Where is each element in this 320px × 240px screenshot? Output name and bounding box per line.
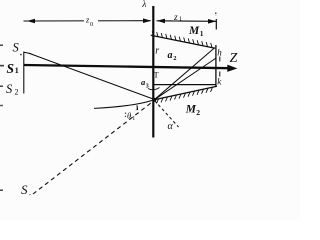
svg-text:2: 2 [15,88,19,97]
svg-text:1: 1 [200,29,204,38]
ray into apex from lower left [94,100,154,109]
hatching M2 [157,87,213,103]
tick at S [24,52,31,53]
axis Z (thick horizontal) [24,65,229,68]
svg-text:1: 1 [179,16,182,23]
arrowhead z1 right [208,19,216,24]
svg-text:h: h [217,48,222,58]
ray O to M1 end [154,49,214,100]
svg-text:M: M [185,104,197,116]
screen plate vertical line [215,45,217,86]
svg-text:S: S [13,40,20,54]
dimension line z1 [157,20,217,23]
svg-text:α: α [168,121,174,132]
ray from S to apex O [29,53,154,99]
axis X (vertical) [152,6,154,138]
dashed bisector alpha [155,101,179,128]
svg-text:λ: λ [141,0,146,10]
direction tick on ray [136,105,139,110]
dashed ray S' to apex [33,101,154,195]
horizontal ray at y=84.6 [153,84,216,86]
mirror M2 [154,86,217,100]
apex node O [152,98,156,102]
svg-text:Z: Z [230,51,238,66]
arrowhead z1 left [157,19,165,24]
dimension line z0 [24,20,151,22]
svg-text:a: a [168,50,173,61]
svg-text:1: 1 [132,116,135,122]
angle arc a3 [148,88,160,90]
svg-text:2: 2 [173,55,176,62]
svg-text:r: r [155,46,159,57]
ray O to screen upper [154,58,216,100]
margin artifact marks [0,45,3,47]
svg-text:2: 2 [196,108,200,117]
source bracket vertical line [23,52,25,94]
label z1 [173,12,184,21]
arrowhead z0 right [143,18,151,23]
svg-text:T: T [154,70,160,80]
svg-text:S: S [21,182,28,197]
svg-text:M: M [188,25,200,37]
mirror M1 [151,35,215,48]
svg-text:.: . [29,188,31,197]
label theta1 [125,113,126,114]
arrowhead Z [227,65,237,72]
hatching M1 [152,31,212,47]
svg-text:S: S [6,82,13,96]
label z0 [84,15,98,27]
screen reference line (right, partly dashed) [215,19,217,30]
arrowhead z0 left [27,19,35,24]
svg-text:1: 1 [15,66,19,75]
svg-text:z: z [173,13,178,23]
svg-text:S: S [7,61,15,76]
svg-text:3: 3 [146,83,149,89]
svg-text:0: 0 [90,21,93,28]
